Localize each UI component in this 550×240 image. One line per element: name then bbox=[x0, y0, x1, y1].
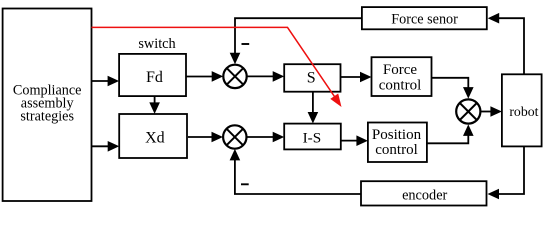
wire: junction 2 to I-S bbox=[247, 132, 285, 143]
svg-text:S: S bbox=[307, 70, 316, 87]
wire: encoder feedback to junction 2 bbox=[230, 149, 361, 194]
summing junction 2 bbox=[223, 125, 246, 148]
wire: Position control to junction 3 bbox=[427, 124, 474, 143]
block: Force control bbox=[372, 57, 432, 96]
block: Xd bbox=[119, 114, 187, 158]
wire: compliance to Xd bbox=[92, 141, 120, 152]
wire: Xd to junction 2 bbox=[188, 132, 223, 143]
svg-text:Position: Position bbox=[372, 127, 422, 143]
svg-text:strategies: strategies bbox=[20, 109, 74, 125]
summing junction 3 bbox=[456, 99, 480, 123]
wire: junction 1 to S bbox=[247, 71, 284, 82]
svg-text:Fd: Fd bbox=[146, 69, 163, 86]
wire: junction 3 to robot bbox=[481, 106, 502, 117]
wire: I-S to Position control bbox=[341, 135, 368, 146]
wire: S down to I-S bbox=[308, 92, 319, 124]
block: encoder bbox=[361, 181, 487, 205]
block: Position control bbox=[368, 123, 427, 163]
minus sign at junction 2 bbox=[241, 183, 249, 185]
svg-text:robot: robot bbox=[509, 104, 538, 119]
wire: Force control to junction 3 bbox=[432, 78, 474, 99]
wire: compliance to Fd bbox=[92, 76, 120, 87]
svg-text:Force: Force bbox=[383, 62, 417, 78]
svg-text:Xd: Xd bbox=[145, 130, 165, 147]
block: S bbox=[284, 64, 340, 92]
svg-text:control: control bbox=[379, 77, 422, 93]
svg-text:control: control bbox=[375, 142, 418, 158]
minus sign at junction 1 bbox=[242, 43, 250, 45]
summing junction 1 bbox=[223, 65, 246, 88]
wire: Fd to junction 1 bbox=[186, 71, 223, 82]
wire: Fd down to Xd bbox=[149, 96, 160, 114]
block: I-S bbox=[284, 124, 341, 150]
red selection line with arrowhead bbox=[92, 27, 342, 107]
wire: robot to Force senor bbox=[488, 13, 524, 74]
wire: S to Force control bbox=[341, 72, 372, 83]
block: robot bbox=[502, 74, 542, 146]
svg-text:encoder: encoder bbox=[402, 188, 447, 204]
svg-text:switch: switch bbox=[138, 36, 175, 52]
wire: robot to encoder bbox=[488, 146, 525, 199]
block: Force senor bbox=[362, 7, 487, 29]
wire: force senor feedback to junction 1 bbox=[230, 18, 362, 64]
svg-text:I-S: I-S bbox=[303, 129, 322, 146]
block: Fd bbox=[119, 54, 186, 96]
block: Compliance assembly strategies bbox=[3, 9, 92, 202]
svg-text:Force senor: Force senor bbox=[391, 11, 458, 27]
